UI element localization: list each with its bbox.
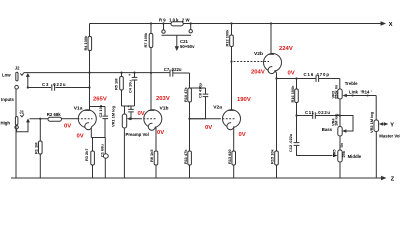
svg-text:25k: 25k	[341, 150, 346, 157]
svg-text:224V: 224V	[279, 46, 293, 52]
svg-text:Y: Y	[390, 123, 394, 129]
svg-text:R5 1M: R5 1M	[113, 79, 118, 90]
svg-text:R3 2k7: R3 2k7	[84, 148, 89, 161]
svg-text:C12 .022u: C12 .022u	[288, 133, 293, 152]
svg-text:Z: Z	[391, 177, 395, 183]
svg-text:J1: J1	[19, 109, 24, 114]
svg-text:0V: 0V	[288, 70, 295, 76]
svg-text:Link: Link	[349, 89, 358, 94]
svg-text:R10 47k: R10 47k	[183, 86, 188, 102]
svg-text:Middle: Middle	[348, 154, 362, 159]
svg-text:50+50v: 50+50v	[180, 44, 195, 49]
svg-text:0V: 0V	[77, 134, 84, 140]
svg-text:R8 1k5: R8 1k5	[149, 149, 154, 162]
svg-text:R11 47k: R11 47k	[183, 149, 188, 164]
svg-text:R16 100k: R16 100k	[290, 85, 295, 103]
svg-text:VR5: VR5	[331, 149, 336, 157]
svg-text:R4 100k: R4 100k	[83, 35, 88, 51]
svg-text:Treble: Treble	[345, 81, 358, 86]
svg-text:Low: Low	[2, 72, 11, 77]
svg-text:1M log: 1M log	[334, 113, 339, 126]
svg-text:R7 100k: R7 100k	[143, 32, 148, 48]
svg-text:0V: 0V	[205, 125, 212, 131]
svg-text:J2: J2	[15, 66, 20, 71]
svg-text:190V: 190V	[237, 97, 251, 103]
svg-text:VR2 1M log: VR2 1M log	[369, 111, 374, 133]
svg-text:C7 .022u: C7 .022u	[164, 67, 182, 72]
svg-text:C16 470p: C16 470p	[304, 72, 330, 77]
svg-text:C3 .022u: C3 .022u	[42, 82, 66, 87]
svg-text:Preamp Vol: Preamp Vol	[126, 132, 149, 137]
svg-text:R2 68k: R2 68k	[47, 112, 61, 117]
svg-text:203V: 203V	[156, 96, 170, 102]
svg-text:V2b: V2b	[254, 51, 263, 57]
svg-text:VR1 1M log: VR1 1M log	[111, 105, 116, 127]
svg-text:R12 100k: R12 100k	[225, 29, 230, 47]
svg-text:0V: 0V	[157, 130, 164, 136]
svg-text:lin: lin	[339, 142, 344, 147]
svg-text:204V: 204V	[251, 69, 265, 75]
svg-text:High: High	[1, 121, 11, 126]
svg-text:R9 10k 2W: R9 10k 2W	[159, 17, 190, 22]
svg-text:0V: 0V	[64, 124, 71, 130]
svg-text:C4 10u: C4 10u	[127, 80, 132, 93]
svg-text:C11 .022u: C11 .022u	[305, 110, 330, 115]
svg-text:V1b: V1b	[160, 105, 169, 111]
svg-text:Master Vol: Master Vol	[379, 134, 400, 139]
svg-text:0V: 0V	[138, 111, 145, 117]
svg-text:265V: 265V	[93, 97, 107, 103]
svg-text:V2a: V2a	[213, 104, 222, 110]
svg-text:+: +	[126, 105, 131, 108]
svg-text:'R14 ': 'R14 '	[361, 89, 372, 94]
svg-text:C8 470p: C8 470p	[198, 82, 203, 98]
svg-text:250k lin: 250k lin	[334, 84, 339, 99]
svg-text:Inputs: Inputs	[1, 97, 14, 102]
svg-text:R1 1M: R1 1M	[33, 143, 38, 154]
svg-text:C2 10u: C2 10u	[98, 104, 103, 117]
svg-text:C1 68u: C1 68u	[100, 144, 105, 157]
svg-text:+: +	[127, 73, 132, 76]
svg-text:X: X	[389, 22, 393, 28]
svg-text:V1a: V1a	[74, 105, 83, 111]
svg-text:R15 10k: R15 10k	[270, 148, 275, 164]
svg-text:0V: 0V	[239, 132, 246, 138]
svg-text:R13 820: R13 820	[227, 149, 232, 164]
svg-text:Bass: Bass	[322, 127, 333, 132]
